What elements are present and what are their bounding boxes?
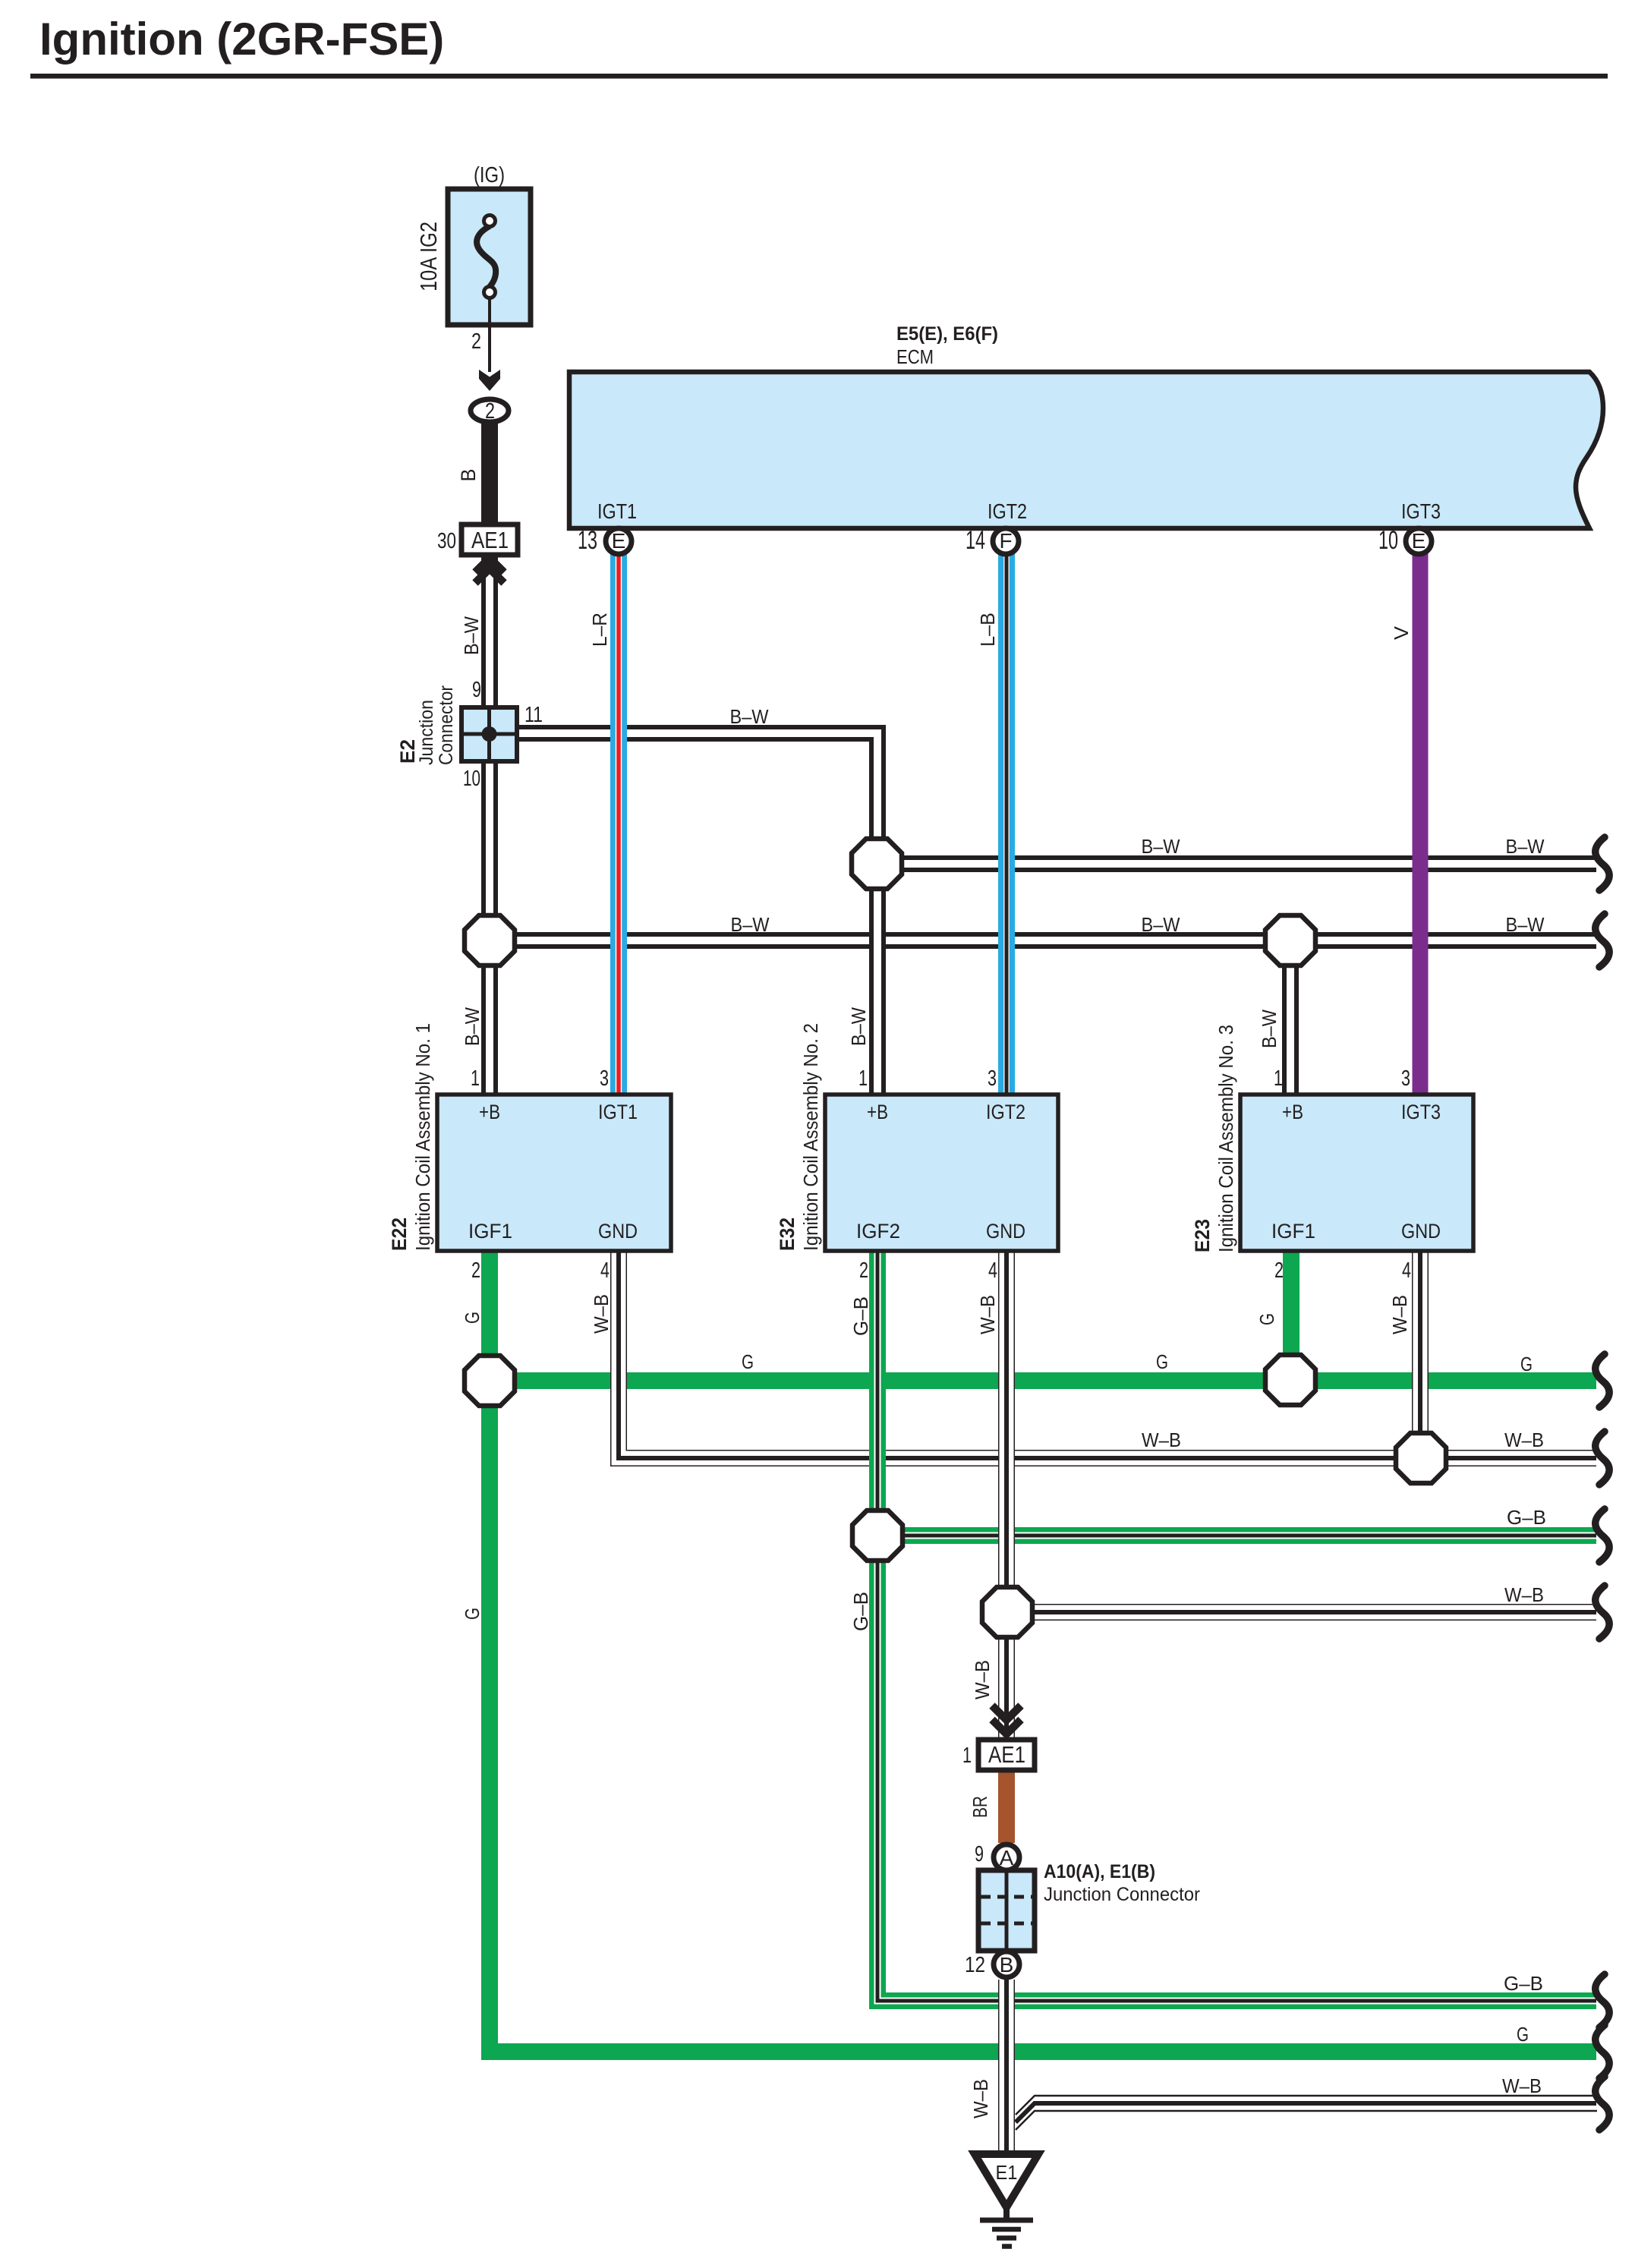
svg-text:E: E xyxy=(1412,529,1426,553)
svg-text:ECM: ECM xyxy=(896,345,934,368)
svg-text:2: 2 xyxy=(859,1258,868,1283)
svg-text:IGT3: IGT3 xyxy=(1401,1101,1441,1123)
svg-text:10: 10 xyxy=(1378,526,1398,555)
svg-text:+B: +B xyxy=(1282,1101,1303,1123)
svg-text:IGF1: IGF1 xyxy=(1271,1220,1315,1243)
svg-text:B–W: B–W xyxy=(730,705,769,728)
svg-text:G: G xyxy=(1520,1353,1533,1375)
svg-text:W–B: W–B xyxy=(969,2079,992,2118)
svg-text:B–W: B–W xyxy=(1506,835,1545,858)
svg-text:1: 1 xyxy=(471,1066,480,1091)
svg-text:11: 11 xyxy=(525,703,543,727)
svg-text:GND: GND xyxy=(1401,1220,1441,1243)
svg-text:AE1: AE1 xyxy=(471,527,509,553)
svg-text:G: G xyxy=(1156,1350,1168,1373)
svg-text:G: G xyxy=(742,1350,754,1373)
svg-text:9: 9 xyxy=(472,678,481,702)
svg-text:W–B: W–B xyxy=(1504,1583,1544,1606)
svg-text:F: F xyxy=(999,529,1012,553)
svg-text:B–W: B–W xyxy=(1142,835,1180,858)
svg-text:2: 2 xyxy=(1274,1258,1284,1283)
svg-text:4: 4 xyxy=(600,1258,610,1283)
svg-text:Ignition (2GR-FSE): Ignition (2GR-FSE) xyxy=(39,14,444,65)
svg-text:L–R: L–R xyxy=(588,613,611,647)
svg-text:+B: +B xyxy=(867,1101,888,1123)
svg-text:W–B: W–B xyxy=(976,1295,999,1334)
svg-text:B–W: B–W xyxy=(1142,913,1180,936)
svg-text:Junction: Junction xyxy=(416,700,437,765)
svg-text:W–B: W–B xyxy=(1142,1429,1181,1451)
svg-text:E1: E1 xyxy=(996,2161,1018,2184)
svg-text:2: 2 xyxy=(471,1258,480,1283)
svg-text:9: 9 xyxy=(975,1842,984,1866)
svg-text:B–W: B–W xyxy=(731,913,770,936)
svg-text:G–B: G–B xyxy=(849,1296,872,1336)
svg-text:GND: GND xyxy=(598,1220,638,1243)
svg-text:B: B xyxy=(1000,1953,1014,1977)
svg-text:Junction Connector: Junction Connector xyxy=(1044,1884,1200,1905)
svg-text:L–B: L–B xyxy=(976,613,999,647)
svg-text:GND: GND xyxy=(986,1220,1025,1243)
svg-text:2: 2 xyxy=(471,329,481,354)
svg-text:2: 2 xyxy=(485,399,495,424)
svg-text:W–B: W–B xyxy=(590,1294,613,1334)
svg-text:IGT1: IGT1 xyxy=(598,1101,638,1123)
svg-text:12: 12 xyxy=(965,1953,985,1977)
svg-text:30: 30 xyxy=(437,529,456,553)
svg-text:W–B: W–B xyxy=(1388,1295,1411,1334)
svg-text:G: G xyxy=(1255,1313,1278,1325)
svg-text:G: G xyxy=(461,1312,484,1324)
svg-text:B–W: B–W xyxy=(1258,1010,1281,1048)
svg-text:V: V xyxy=(1390,625,1413,640)
svg-text:B–W: B–W xyxy=(1506,913,1545,936)
svg-text:B–W: B–W xyxy=(461,1007,484,1046)
svg-text:13: 13 xyxy=(578,526,597,555)
svg-text:B: B xyxy=(457,469,480,482)
svg-text:G: G xyxy=(461,1608,484,1620)
svg-text:1: 1 xyxy=(1274,1066,1283,1091)
svg-text:E5(E), E6(F): E5(E), E6(F) xyxy=(896,323,998,345)
svg-text:A10(A), E1(B): A10(A), E1(B) xyxy=(1044,1861,1155,1882)
svg-text:3: 3 xyxy=(600,1066,609,1091)
svg-text:(IG): (IG) xyxy=(474,163,505,187)
svg-text:4: 4 xyxy=(988,1258,997,1283)
svg-text:3: 3 xyxy=(988,1066,997,1091)
svg-text:E32: E32 xyxy=(776,1217,799,1251)
svg-text:G: G xyxy=(1517,2023,1529,2046)
svg-text:E23: E23 xyxy=(1191,1219,1214,1252)
svg-text:1: 1 xyxy=(858,1066,868,1091)
svg-text:IGF1: IGF1 xyxy=(468,1220,512,1243)
svg-text:14: 14 xyxy=(966,526,985,555)
svg-text:IGT2: IGT2 xyxy=(986,1101,1025,1123)
svg-text:G–B: G–B xyxy=(849,1592,872,1631)
svg-text:Ignition Coil Assembly No. 1: Ignition Coil Assembly No. 1 xyxy=(411,1023,434,1251)
svg-text:Ignition Coil Assembly No. 3: Ignition Coil Assembly No. 3 xyxy=(1214,1025,1237,1252)
svg-text:IGT1: IGT1 xyxy=(597,499,637,523)
svg-text:3: 3 xyxy=(1401,1066,1410,1091)
svg-text:Ignition Coil Assembly No. 2: Ignition Coil Assembly No. 2 xyxy=(799,1023,822,1251)
svg-text:BR: BR xyxy=(969,1796,991,1818)
svg-text:4: 4 xyxy=(1402,1258,1411,1283)
svg-text:B–W: B–W xyxy=(460,616,483,655)
svg-text:G–B: G–B xyxy=(1507,1506,1546,1529)
svg-text:W–B: W–B xyxy=(971,1660,994,1699)
svg-text:10: 10 xyxy=(463,767,480,791)
svg-text:IGF2: IGF2 xyxy=(856,1220,900,1243)
svg-text:G–B: G–B xyxy=(1504,1972,1543,1995)
svg-text:10A IG2: 10A IG2 xyxy=(415,222,442,291)
svg-text:+B: +B xyxy=(479,1101,500,1123)
svg-text:Connector: Connector xyxy=(436,685,457,765)
svg-text:E22: E22 xyxy=(388,1217,411,1251)
svg-text:W–B: W–B xyxy=(1504,1429,1544,1451)
svg-text:IGT2: IGT2 xyxy=(988,499,1027,523)
svg-text:1: 1 xyxy=(962,1744,972,1768)
svg-text:E: E xyxy=(612,529,626,553)
svg-text:B–W: B–W xyxy=(847,1007,870,1046)
svg-text:W–B: W–B xyxy=(1502,2074,1542,2097)
svg-text:IGT3: IGT3 xyxy=(1401,499,1441,523)
svg-text:A: A xyxy=(1000,1846,1014,1870)
svg-text:AE1: AE1 xyxy=(988,1741,1025,1768)
